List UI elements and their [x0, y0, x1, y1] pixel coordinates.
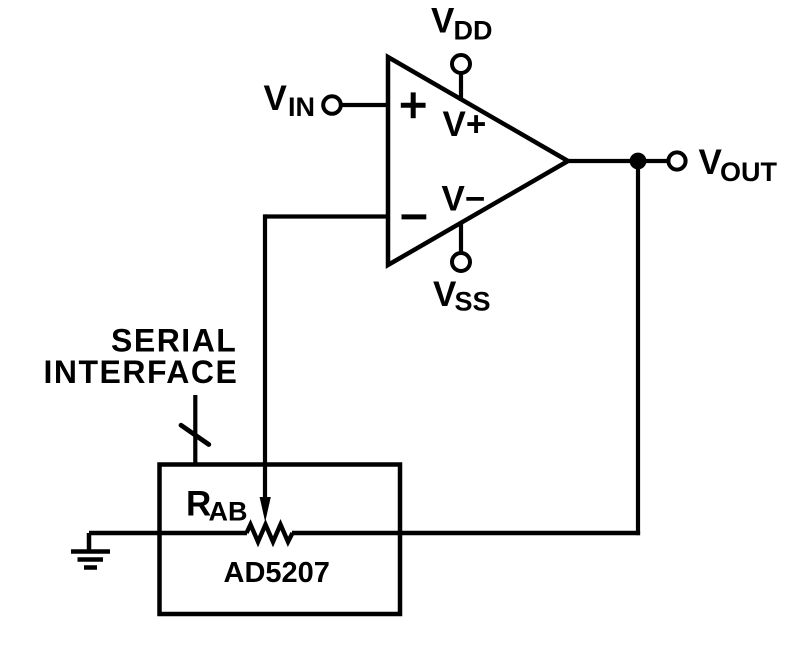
svg-text:AD5207: AD5207: [224, 557, 330, 589]
op-amp U1: [388, 57, 568, 265]
svg-text:V: V: [264, 79, 288, 118]
svg-text:V: V: [699, 143, 723, 182]
plus input symbol: [401, 92, 426, 118]
terminal VIN: [323, 96, 341, 114]
svg-text:AB: AB: [209, 497, 248, 527]
serial interface wire: [193, 395, 197, 465]
svg-text:V−: V−: [442, 180, 486, 219]
svg-text:IN: IN: [288, 92, 315, 122]
wire VIN to plus input: [340, 103, 390, 107]
wire bottom right segment: [292, 531, 640, 535]
svg-text:V+: V+: [443, 105, 487, 144]
wire wiper vertical: [263, 214, 267, 508]
svg-text:V: V: [433, 275, 457, 314]
svg-text:DD: DD: [454, 16, 493, 46]
minus input symbol: [402, 214, 427, 219]
wire op-amp output: [566, 159, 668, 163]
svg-text:R: R: [186, 485, 211, 524]
wire feedback vertical from output node: [636, 161, 640, 535]
node junction at output: [630, 153, 647, 170]
power terminal VDD: [452, 55, 470, 73]
power stub VDD: [459, 72, 463, 101]
resistor RAB zigzag: [247, 525, 293, 542]
wiper arrowhead: [260, 497, 271, 522]
wire bottom left segment: [89, 531, 247, 535]
ground: [71, 533, 110, 568]
terminal VOUT: [668, 152, 685, 169]
bus slash: [181, 425, 209, 444]
svg-text:OUT: OUT: [720, 157, 778, 187]
svg-text:V: V: [431, 1, 455, 40]
power stub VSS: [459, 222, 463, 254]
svg-text:INTERFACE: INTERFACE: [44, 354, 239, 390]
wire minus input horizontal: [265, 214, 390, 218]
power terminal VSS: [452, 253, 470, 271]
svg-text:SS: SS: [455, 287, 491, 317]
box AD5207 U2: [160, 465, 401, 615]
